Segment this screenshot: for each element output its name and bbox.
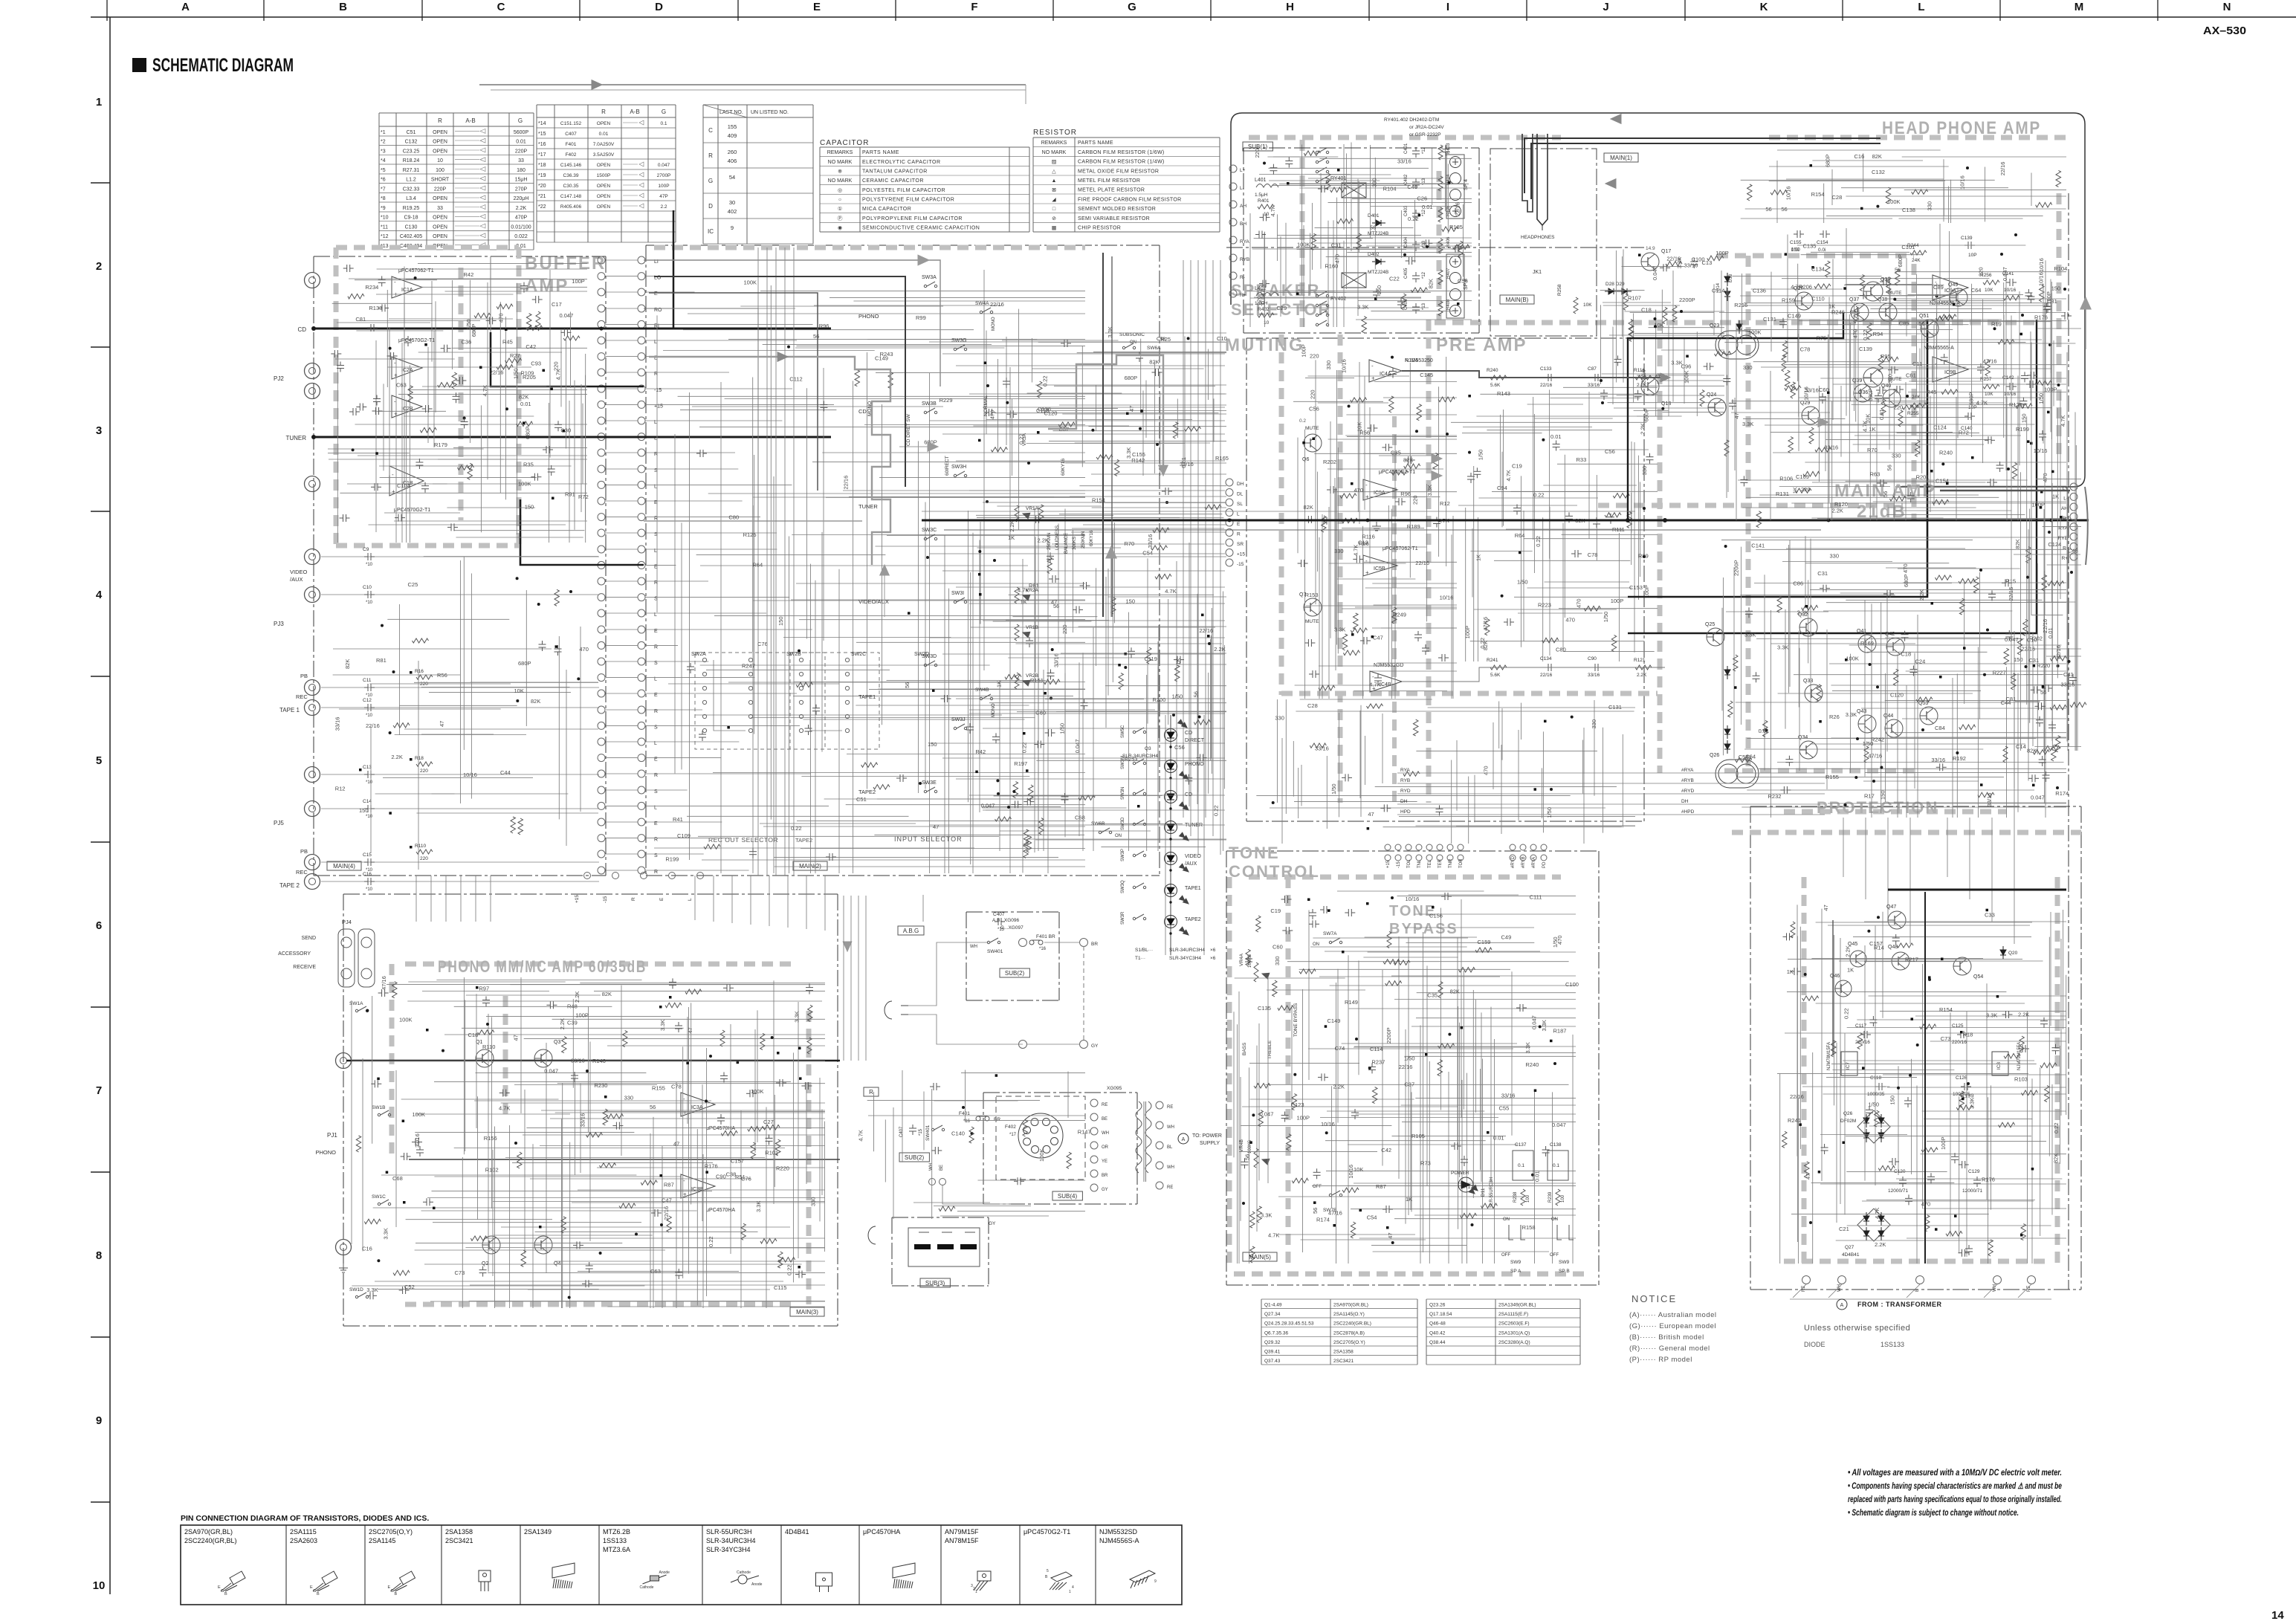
svg-text:C407: C407 bbox=[565, 132, 577, 137]
svg-text:56: 56 bbox=[1781, 206, 1787, 213]
transistor Q47 bbox=[1888, 911, 1906, 929]
wire bbox=[2031, 173, 2032, 207]
svg-text:Q54: Q54 bbox=[1973, 974, 1983, 980]
svg-text:METEL FILM RESISTOR: METEL FILM RESISTOR bbox=[1078, 178, 1140, 184]
svg-text:SUB(2): SUB(2) bbox=[905, 1154, 925, 1161]
svg-text:G: G bbox=[708, 178, 713, 184]
svg-text:R104: R104 bbox=[2054, 265, 2067, 272]
svg-text:C54: C54 bbox=[1142, 550, 1153, 557]
svg-text:470P: 470P bbox=[515, 216, 528, 221]
RY bus lines bbox=[1397, 772, 1825, 774]
svg-text:C153: C153 bbox=[1629, 584, 1643, 591]
svg-text:DH: DH bbox=[1400, 799, 1408, 804]
svg-text:CAPACITOR: CAPACITOR bbox=[820, 139, 869, 147]
svg-text:C403: C403 bbox=[1404, 205, 1409, 216]
svg-text:0.2: 0.2 bbox=[1299, 418, 1306, 424]
svg-text:R405: R405 bbox=[1446, 205, 1451, 216]
svg-text:C151.152: C151.152 bbox=[560, 121, 582, 126]
svg-text:C30: C30 bbox=[560, 427, 571, 434]
transistor Q3 bbox=[534, 1049, 552, 1067]
svg-text:10/16: 10/16 bbox=[463, 771, 477, 778]
svg-text:HEAD PHONE AMP: HEAD PHONE AMP bbox=[1882, 118, 2041, 138]
svg-text:D401: D401 bbox=[1368, 213, 1380, 219]
svg-text:R19.25: R19.25 bbox=[403, 206, 420, 211]
package drawing μPC4570HA bbox=[893, 1563, 915, 1578]
svg-text:JK1: JK1 bbox=[1533, 270, 1542, 275]
package drawing 2SA1115 bbox=[322, 1571, 337, 1585]
svg-text:3.3K: 3.3K bbox=[1742, 421, 1753, 427]
svg-text:4D4B41: 4D4B41 bbox=[785, 1528, 809, 1536]
transistor Q41 bbox=[1858, 635, 1876, 653]
svg-text:VIDEO: VIDEO bbox=[290, 569, 308, 575]
svg-text:C145.146: C145.146 bbox=[560, 163, 582, 168]
svg-text:R237: R237 bbox=[1371, 1058, 1385, 1065]
svg-text:406: 406 bbox=[728, 158, 737, 164]
boxed label SUB(1) bbox=[1243, 142, 1272, 151]
wire bbox=[1883, 1074, 2066, 1075]
svg-text:330: 330 bbox=[1743, 364, 1753, 371]
svg-text:2.2K: 2.2K bbox=[516, 206, 527, 211]
svg-text:Q24: Q24 bbox=[1707, 392, 1716, 398]
svg-text:Q37: Q37 bbox=[1849, 297, 1859, 302]
svg-text:WH: WH bbox=[1167, 1125, 1174, 1130]
svg-text:RYB: RYB bbox=[1240, 257, 1249, 262]
svg-text:680P: 680P bbox=[518, 660, 531, 667]
svg-text:C86: C86 bbox=[1793, 580, 1803, 587]
svg-text:E: E bbox=[659, 897, 664, 901]
svg-text:100P: 100P bbox=[1940, 1136, 1947, 1150]
svg-text:TAPE 1: TAPE 1 bbox=[279, 707, 300, 714]
transistor Q29 bbox=[1802, 407, 1820, 424]
svg-text:C21: C21 bbox=[1839, 1226, 1849, 1232]
svg-text:100: 100 bbox=[1561, 1194, 1565, 1203]
svg-text:R91: R91 bbox=[565, 491, 575, 497]
svg-text:*16: *16 bbox=[538, 142, 546, 147]
svg-text:5600P: 5600P bbox=[514, 130, 529, 135]
svg-text:C15: C15 bbox=[363, 852, 372, 858]
svg-text:C68: C68 bbox=[392, 1175, 403, 1182]
svg-text:DF02M: DF02M bbox=[1840, 1119, 1856, 1124]
svg-text:C54: C54 bbox=[1367, 1214, 1377, 1220]
svg-text:680P: 680P bbox=[1643, 409, 1649, 422]
svg-text:NJM5532SD: NJM5532SD bbox=[1099, 1528, 1138, 1536]
svg-text:UN LISTED NO.: UN LISTED NO. bbox=[751, 110, 789, 115]
svg-text:A.B.G: A.B.G bbox=[903, 928, 919, 934]
svg-text:B: B bbox=[339, 1, 347, 13]
switch SW1C bbox=[378, 1203, 380, 1205]
svg-text:5.6K: 5.6K bbox=[1490, 673, 1501, 678]
svg-text:3.3K: 3.3K bbox=[793, 1011, 800, 1022]
parts cluster bbox=[389, 812, 392, 815]
parts cluster bbox=[1272, 801, 1275, 804]
svg-text:33/16: 33/16 bbox=[414, 1133, 421, 1148]
svg-text:PARTS NAME: PARTS NAME bbox=[862, 150, 899, 155]
svg-text:I: I bbox=[1446, 1, 1449, 13]
svg-text:0.047: 0.047 bbox=[1260, 1111, 1274, 1118]
svg-text:100P: 100P bbox=[1464, 626, 1471, 639]
svg-text:OPEN: OPEN bbox=[597, 184, 611, 189]
svg-text:1: 1 bbox=[96, 96, 102, 109]
svg-text:CONTROL: CONTROL bbox=[1229, 862, 1320, 881]
parts cluster bbox=[888, 372, 893, 389]
parts cluster bbox=[378, 307, 382, 308]
svg-text:R243: R243 bbox=[880, 351, 893, 357]
svg-text:Q38.44: Q38.44 bbox=[1429, 1340, 1446, 1345]
svg-text:R+: R+ bbox=[1240, 293, 1246, 298]
svg-text:B: B bbox=[317, 1592, 320, 1596]
svg-text:33/16: 33/16 bbox=[1931, 757, 1945, 763]
svg-text:C11: C11 bbox=[363, 678, 372, 683]
svg-text:100K: 100K bbox=[1748, 329, 1762, 336]
wire bbox=[1285, 699, 1287, 814]
svg-text:PHONO MM/MC AMP 60/35dB: PHONO MM/MC AMP 60/35dB bbox=[438, 957, 647, 976]
svg-text:R227: R227 bbox=[1993, 670, 2006, 676]
svg-text:IC5B: IC5B bbox=[1374, 566, 1385, 572]
svg-text:33/16: 33/16 bbox=[2060, 681, 2075, 687]
svg-text:C14: C14 bbox=[363, 799, 372, 804]
svg-text:TOL: TOL bbox=[1407, 859, 1411, 868]
speaker selector gray frame bbox=[1300, 140, 1305, 327]
svg-text:WH: WH bbox=[929, 1163, 934, 1171]
svg-text:1: 1 bbox=[1069, 1590, 1071, 1594]
svg-text:C114: C114 bbox=[1370, 1046, 1383, 1052]
parts cluster bbox=[2003, 296, 2019, 300]
wire bbox=[1758, 768, 2066, 769]
svg-text:Q2: Q2 bbox=[482, 1261, 488, 1266]
transformer winding symbol bbox=[1136, 1101, 1142, 1173]
svg-text:C29: C29 bbox=[1276, 305, 1287, 311]
svg-text:R187: R187 bbox=[1553, 1028, 1567, 1035]
svg-text:C44: C44 bbox=[500, 769, 511, 776]
switch SW7A bbox=[1329, 941, 1331, 943]
svg-text:6: 6 bbox=[96, 919, 102, 932]
MAIN2 top gray dash bbox=[654, 245, 1085, 250]
svg-text:ON: ON bbox=[1503, 1217, 1510, 1222]
svg-text:D11: D11 bbox=[1481, 1188, 1486, 1197]
svg-text:30: 30 bbox=[729, 199, 735, 206]
svg-text:IC7: IC7 bbox=[1846, 1062, 1851, 1070]
svg-text:CHIP RESISTOR: CHIP RESISTOR bbox=[1078, 226, 1121, 231]
svg-text:1/50: 1/50 bbox=[1868, 1101, 1879, 1107]
svg-text:SW4A: SW4A bbox=[975, 301, 989, 306]
svg-text:R125: R125 bbox=[743, 531, 757, 538]
transistor Q27 bbox=[1795, 292, 1813, 310]
svg-text:J: J bbox=[1603, 1, 1608, 13]
wire bbox=[867, 1100, 1040, 1101]
svg-text:L: L bbox=[1918, 1, 1924, 13]
svg-text:MUTE: MUTE bbox=[1305, 426, 1319, 431]
svg-text:10/16: 10/16 bbox=[2038, 258, 2045, 272]
svg-text:3.3K: 3.3K bbox=[755, 1201, 762, 1212]
svg-text:R: R bbox=[438, 117, 442, 124]
svg-text:100K: 100K bbox=[518, 481, 531, 488]
svg-text:replaced with parts having spe: replaced with parts having specification… bbox=[1848, 1495, 2062, 1504]
wire bbox=[1223, 592, 1224, 852]
switch SW3D bbox=[924, 664, 926, 666]
svg-text:47/16: 47/16 bbox=[1983, 358, 1997, 365]
transistor usage table 1 bbox=[1261, 1298, 1417, 1300]
svg-text:470: 470 bbox=[1556, 935, 1563, 945]
capacitor bank C401-C406 bbox=[1415, 147, 1417, 151]
svg-text:Unless otherwise specified: Unless otherwise specified bbox=[1804, 1324, 1910, 1333]
svg-text:DL: DL bbox=[1237, 492, 1244, 497]
svg-text:300KS: 300KS bbox=[1073, 537, 1077, 550]
svg-text:DH: DH bbox=[1237, 482, 1244, 487]
svg-text:R220: R220 bbox=[776, 1165, 789, 1172]
svg-text:SW3I: SW3I bbox=[951, 591, 964, 596]
svg-text:-: - bbox=[1365, 482, 1368, 488]
svg-text:C: C bbox=[313, 1589, 316, 1594]
svg-text:33/16: 33/16 bbox=[1986, 793, 1993, 807]
svg-text:270P: 270P bbox=[515, 187, 528, 192]
svg-text:C24: C24 bbox=[1915, 658, 1926, 664]
second SW401 block bbox=[931, 1128, 934, 1130]
svg-text:MICA CAPACITOR: MICA CAPACITOR bbox=[862, 207, 911, 212]
capacitor C142 bbox=[2006, 386, 2010, 387]
svg-text:TUNER: TUNER bbox=[858, 503, 878, 510]
diode D401 bbox=[1376, 220, 1381, 226]
svg-text:▦: ▦ bbox=[1052, 226, 1057, 231]
svg-text:MAIN(B): MAIN(B) bbox=[1506, 297, 1529, 303]
svg-text:G: G bbox=[662, 109, 666, 115]
svg-text:2.2K: 2.2K bbox=[2018, 1012, 2029, 1018]
svg-text:R70: R70 bbox=[1867, 447, 1878, 453]
svg-text:R64: R64 bbox=[1515, 532, 1525, 539]
svg-text:2.2: 2.2 bbox=[660, 204, 667, 210]
svg-text:R246: R246 bbox=[1831, 309, 1845, 316]
svg-text:LOUDNESS: LOUDNESS bbox=[1055, 525, 1060, 550]
svg-text:47: 47 bbox=[933, 824, 939, 830]
svg-text:Cathode: Cathode bbox=[640, 1585, 654, 1590]
svg-text:R241: R241 bbox=[1788, 1117, 1801, 1124]
svg-text:0.047: 0.047 bbox=[1074, 740, 1081, 754]
svg-text:R131: R131 bbox=[1776, 491, 1789, 497]
svg-text:3.3K: 3.3K bbox=[1357, 303, 1368, 310]
svg-text:• Components having special ch: • Components having special characterist… bbox=[1848, 1482, 2062, 1491]
resistor R256 bbox=[1983, 280, 1999, 285]
svg-text:0.047: 0.047 bbox=[2031, 795, 2045, 801]
svg-text:NO MARK: NO MARK bbox=[828, 178, 853, 184]
svg-text:*10: *10 bbox=[366, 780, 373, 785]
svg-text:R192: R192 bbox=[1953, 755, 1966, 762]
svg-text:82K: 82K bbox=[1428, 279, 1435, 288]
svg-text:-: - bbox=[394, 360, 396, 366]
connector PJ4 bbox=[338, 929, 355, 987]
svg-text:R234: R234 bbox=[365, 284, 378, 291]
svg-text:C93: C93 bbox=[531, 360, 541, 367]
block SUB(4) outline bbox=[983, 1092, 1137, 1093]
svg-text:R: R bbox=[631, 897, 636, 901]
svg-text:C140: C140 bbox=[951, 1130, 965, 1137]
svg-text:0.22: 0.22 bbox=[2053, 1122, 2060, 1133]
boxed label MAIN(4) bbox=[327, 861, 361, 870]
wire bbox=[1909, 381, 1983, 382]
svg-text:8: 8 bbox=[96, 1249, 102, 1262]
svg-text:Q18: Q18 bbox=[1661, 401, 1671, 407]
svg-text:R229: R229 bbox=[940, 397, 953, 404]
AC terminals BR GY bbox=[1019, 939, 1027, 947]
svg-text:R142: R142 bbox=[1131, 457, 1145, 464]
svg-text:• All voltages are measured wi: • All voltages are measured with a 10MΩ/… bbox=[1848, 1469, 2062, 1478]
svg-text:SEMICONDUCTIVE CERAMIC CAPACIT: SEMICONDUCTIVE CERAMIC CAPACITION bbox=[862, 226, 980, 231]
svg-text:G: G bbox=[1128, 1, 1136, 13]
svg-text:409: 409 bbox=[728, 132, 737, 139]
svg-text:SR: SR bbox=[1237, 542, 1244, 547]
svg-text:C17: C17 bbox=[552, 301, 562, 308]
svg-text:4.7K: 4.7K bbox=[857, 1130, 864, 1141]
svg-text:R174: R174 bbox=[2055, 790, 2069, 797]
long selector-to-preamp wires bbox=[929, 341, 1225, 343]
svg-text:IC1A: IC1A bbox=[401, 288, 413, 293]
op-amp IC5A bbox=[1363, 479, 1397, 500]
svg-text:9: 9 bbox=[96, 1414, 102, 1427]
svg-text:1K: 1K bbox=[1174, 658, 1181, 664]
svg-text:C51: C51 bbox=[856, 796, 867, 803]
svg-text:#RYD: #RYD bbox=[1511, 855, 1516, 868]
svg-text:OPEN: OPEN bbox=[433, 234, 447, 239]
svg-text:Q6: Q6 bbox=[1302, 457, 1309, 462]
title SCHEMATIC DIAGRAM bbox=[132, 58, 146, 72]
svg-text:SUB(3): SUB(3) bbox=[925, 1280, 945, 1287]
svg-text:47: 47 bbox=[687, 1027, 693, 1033]
svg-text:R: R bbox=[708, 152, 713, 159]
svg-text:R106: R106 bbox=[1779, 476, 1793, 482]
svg-text:Q27.34: Q27.34 bbox=[1264, 1312, 1281, 1317]
svg-text:22/16: 22/16 bbox=[1999, 162, 2006, 176]
svg-text:470: 470 bbox=[1852, 329, 1859, 339]
buffer amp gray frame bbox=[334, 247, 339, 549]
svg-text:C138: C138 bbox=[1902, 207, 1915, 213]
svg-text:3.3K: 3.3K bbox=[1744, 631, 1756, 638]
rec out selector switch matrix SW2A SW2B bbox=[702, 658, 706, 661]
svg-text:C80: C80 bbox=[728, 514, 739, 521]
svg-text:33/16: 33/16 bbox=[571, 1058, 585, 1064]
svg-text:10/16: 10/16 bbox=[1341, 359, 1348, 373]
svg-text:47/16: 47/16 bbox=[1328, 1210, 1342, 1217]
svg-text:Q3: Q3 bbox=[1145, 746, 1151, 751]
svg-text:L: L bbox=[688, 898, 693, 901]
svg-text:VR4A: VR4A bbox=[1239, 953, 1244, 966]
svg-text:AN79M15F: AN79M15F bbox=[945, 1528, 979, 1536]
capacitor C125 bbox=[1957, 1034, 1961, 1035]
svg-text:680P: 680P bbox=[1897, 254, 1904, 268]
svg-text:*9: *9 bbox=[381, 206, 386, 211]
svg-text:100K: 100K bbox=[1297, 242, 1310, 248]
svg-text:100K: 100K bbox=[1038, 1148, 1045, 1162]
svg-text:47: 47 bbox=[1823, 905, 1829, 910]
svg-text:R110: R110 bbox=[482, 1044, 495, 1050]
switch SW3G bbox=[954, 348, 956, 350]
svg-text:100P: 100P bbox=[2032, 502, 2046, 508]
svg-text:*12: *12 bbox=[1422, 271, 1426, 279]
svg-text:SW5C: SW5C bbox=[1121, 725, 1125, 738]
svg-text:L1.2: L1.2 bbox=[406, 178, 416, 183]
svg-text:WH: WH bbox=[970, 945, 977, 949]
wire bbox=[505, 317, 507, 499]
inductor L401 bbox=[1256, 184, 1278, 188]
switch SW3E bbox=[924, 790, 926, 792]
svg-text:C157: C157 bbox=[731, 1158, 744, 1165]
svg-text:4.7K: 4.7K bbox=[1268, 1232, 1279, 1238]
svg-text:*13: *13 bbox=[1422, 302, 1426, 310]
svg-text:C37: C37 bbox=[1404, 1081, 1414, 1088]
parts cluster bbox=[1878, 355, 1883, 372]
svg-text:R155: R155 bbox=[652, 1084, 665, 1091]
svg-text:OPEN: OPEN bbox=[597, 204, 611, 210]
svg-text:C12: C12 bbox=[363, 698, 372, 703]
svg-text:C28: C28 bbox=[1307, 702, 1318, 709]
svg-text:R19: R19 bbox=[1991, 321, 2002, 328]
svg-text:R-: R- bbox=[1240, 275, 1245, 280]
svg-text:330: 330 bbox=[1274, 956, 1281, 965]
svg-text:0.22: 0.22 bbox=[1533, 491, 1545, 498]
svg-text:MONO: MONO bbox=[992, 703, 996, 717]
svg-text:TER: TER bbox=[1438, 858, 1443, 868]
svg-text:NJM78M15FA: NJM78M15FA bbox=[1827, 1042, 1831, 1070]
svg-text:R407: R407 bbox=[1446, 268, 1451, 279]
svg-text:METEL PLATE RESISTOR: METEL PLATE RESISTOR bbox=[1078, 188, 1145, 193]
svg-text:R18: R18 bbox=[415, 756, 424, 761]
svg-text:C80: C80 bbox=[1556, 647, 1566, 653]
svg-text:MTZ6.2B: MTZ6.2B bbox=[603, 1528, 630, 1536]
svg-text:33/16: 33/16 bbox=[1052, 653, 1059, 667]
svg-text:C139: C139 bbox=[1961, 236, 1973, 241]
svg-text:OFF: OFF bbox=[1550, 1253, 1559, 1258]
svg-text:*1: *1 bbox=[381, 130, 386, 135]
svg-text:◎: ◎ bbox=[838, 188, 842, 193]
svg-text:TAPE1: TAPE1 bbox=[858, 693, 876, 700]
svg-text:3.3K: 3.3K bbox=[1541, 1020, 1548, 1031]
svg-text:22/16: 22/16 bbox=[663, 1206, 670, 1220]
svg-text:C134: C134 bbox=[1540, 656, 1552, 661]
svg-text:150: 150 bbox=[2014, 656, 2023, 663]
svg-text:ON: ON bbox=[1551, 1217, 1558, 1222]
svg-text:C78: C78 bbox=[671, 1084, 682, 1090]
svg-text:L+: L+ bbox=[1240, 168, 1246, 173]
svg-text:2SC2240(GR,BL): 2SC2240(GR,BL) bbox=[184, 1537, 237, 1544]
svg-text:100K: 100K bbox=[413, 1111, 426, 1118]
svg-text:DIODE: DIODE bbox=[1804, 1341, 1826, 1348]
svg-text:C38: C38 bbox=[726, 1171, 737, 1178]
wire bbox=[355, 424, 588, 425]
wire bbox=[1345, 435, 1457, 436]
svg-text:POLYESTEL FILM CAPACITOR: POLYESTEL FILM CAPACITOR bbox=[862, 188, 945, 193]
svg-text:BE: BE bbox=[1102, 1117, 1107, 1122]
svg-text:R143: R143 bbox=[1497, 390, 1510, 397]
svg-text:0.01: 0.01 bbox=[1422, 204, 1433, 210]
wire bbox=[416, 812, 598, 814]
svg-text:REMARKS: REMARKS bbox=[827, 150, 853, 155]
parts change table 1 bbox=[379, 112, 534, 114]
switch SW4B bbox=[980, 697, 982, 699]
svg-text:C64: C64 bbox=[1971, 287, 1982, 294]
svg-text:NORMAL: NORMAL bbox=[983, 395, 989, 416]
svg-text:R249: R249 bbox=[1393, 612, 1406, 618]
svg-text:470: 470 bbox=[1565, 616, 1575, 623]
svg-text:SW3R: SW3R bbox=[1121, 911, 1125, 925]
svg-text:220P: 220P bbox=[434, 187, 447, 192]
svg-text:1/50: 1/50 bbox=[1603, 612, 1609, 623]
switch SW1A bbox=[355, 1009, 358, 1012]
svg-text:2.2K: 2.2K bbox=[1637, 383, 1647, 388]
svg-text:R27: R27 bbox=[510, 352, 520, 359]
POWER LED D11 bbox=[1458, 1177, 1473, 1192]
svg-text:100P: 100P bbox=[1297, 1114, 1310, 1121]
capacitor C407 upper bbox=[995, 921, 998, 922]
svg-text:Q17.18.54: Q17.18.54 bbox=[1429, 1312, 1452, 1317]
heavy wire CD line bbox=[314, 328, 831, 330]
svg-text:⊠: ⊠ bbox=[1052, 188, 1056, 193]
